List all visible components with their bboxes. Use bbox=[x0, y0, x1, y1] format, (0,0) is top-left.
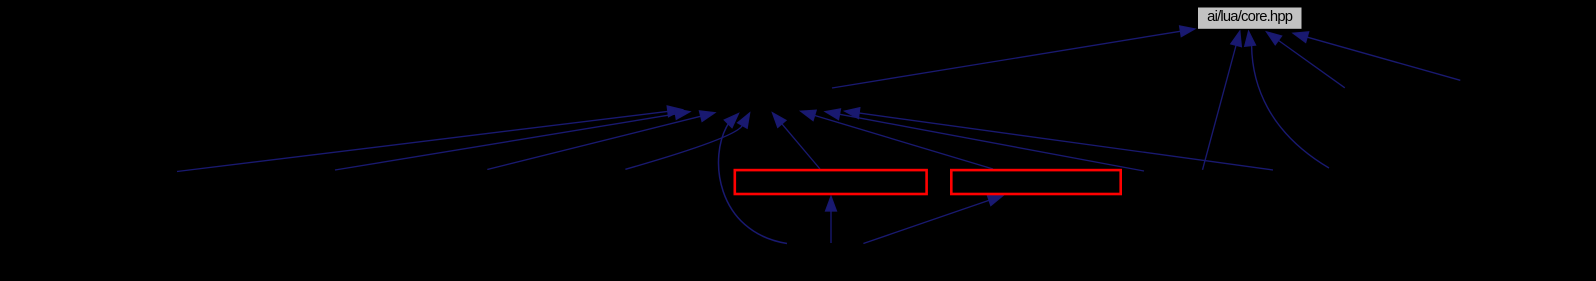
edge: red box 2 -> hidden middle node bbox=[800, 110, 993, 169]
edge: left file 2 -> hidden middle node bbox=[335, 108, 691, 170]
svg-text:ai/lua/core.hpp: ai/lua/core.hpp bbox=[1207, 9, 1293, 25]
node: ai/lua/core.hpp (current file, grey) bbox=[1198, 7, 1303, 29]
edge: left file 3 -> hidden middle node bbox=[487, 111, 715, 170]
edge: right file 1 -> hidden middle node bbox=[825, 109, 1145, 171]
edge: bottom node -> red box 2 (diagonal) bbox=[863, 195, 1003, 244]
edge: red box 1 -> hidden middle node bbox=[772, 112, 820, 169]
edge: bottom node -> red box 1 (vertical) bbox=[825, 196, 837, 243]
node: red box 2 (truncated dependency) bbox=[951, 170, 1120, 194]
edge: right file 2 -> hidden middle node bbox=[844, 107, 1273, 170]
edge: right file -> core.hpp (steep diagonal) bbox=[1266, 32, 1345, 88]
edge: bottom node -> hidden middle node (big left curve) bbox=[719, 113, 787, 244]
edge: far right file -> core.hpp (shallow diagonal) bbox=[1293, 32, 1461, 81]
edge: left file 4 -> hidden middle node (slight curve) bbox=[625, 112, 750, 169]
edge: left file 1 -> hidden middle node bbox=[177, 106, 683, 172]
edge: lower right file -> core.hpp (near vertical) bbox=[1203, 31, 1242, 170]
node: red box 1 (truncated dependency) bbox=[735, 170, 927, 194]
edge: lower right file 2 -> core.hpp (curved) bbox=[1244, 31, 1329, 169]
edge: hidden middle node -> ai/lua/core.hpp bbox=[832, 26, 1196, 88]
